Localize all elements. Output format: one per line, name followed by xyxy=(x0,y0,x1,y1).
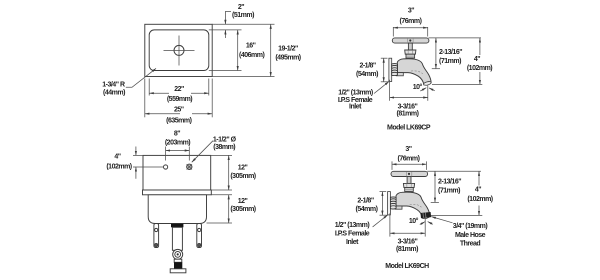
svg-text:Model LK69CP: Model LK69CP xyxy=(387,125,431,132)
16 inch dimension line xyxy=(237,30,239,71)
svg-text:Model LK69CH: Model LK69CH xyxy=(385,263,429,270)
extension bowl bottom to 16 dim xyxy=(209,70,242,72)
svg-text:(76mm): (76mm) xyxy=(400,18,422,25)
2-13/16 dimension CP xyxy=(435,38,437,69)
faucet LK69CP xyxy=(389,38,432,86)
svg-text:(102mm): (102mm) xyxy=(106,164,131,171)
backsplash panel xyxy=(143,155,211,190)
svg-text:(495mm): (495mm) xyxy=(275,55,300,62)
drain foot xyxy=(170,269,186,273)
extension bowl left to 22 dim xyxy=(148,79,150,96)
10 degree arrows CP xyxy=(420,88,426,91)
svg-text:(71mm): (71mm) xyxy=(438,188,460,195)
svg-text:3": 3" xyxy=(408,8,414,15)
19-1/2 dimension line xyxy=(270,24,272,76)
svg-text:2-13/16": 2-13/16" xyxy=(439,49,462,56)
svg-text:Thread: Thread xyxy=(460,241,481,248)
svg-text:10°: 10° xyxy=(409,217,419,225)
handle top extension CP xyxy=(429,37,482,39)
3 inch extension lines CH xyxy=(391,161,393,170)
extension rim right to 25 dim xyxy=(211,79,213,118)
2-1/8 dimension CP xyxy=(383,58,385,82)
lower 12 dimension line xyxy=(228,195,230,223)
svg-text:1/2" (13mm): 1/2" (13mm) xyxy=(338,90,373,97)
leader IPS inlet CP xyxy=(374,82,389,94)
drain pipe xyxy=(172,227,182,250)
4 inch arrows front xyxy=(135,147,137,156)
svg-text:(38mm): (38mm) xyxy=(213,144,235,151)
22 inch dimension line xyxy=(149,92,169,94)
3-3/16 dimension CP xyxy=(390,97,428,99)
3 inch dimension CP xyxy=(393,27,427,29)
left mounting leg xyxy=(154,224,159,248)
drain flange (black) xyxy=(171,224,183,228)
leader hose thread CH xyxy=(431,217,452,223)
svg-text:2-1/8": 2-1/8" xyxy=(357,198,373,205)
2 inch bracket and arrows xyxy=(225,12,231,25)
svg-text:(635mm): (635mm) xyxy=(166,117,191,124)
svg-text:(44mm): (44mm) xyxy=(103,89,125,96)
drain union nut circles xyxy=(173,249,183,259)
extensions 8 inch dim xyxy=(165,147,167,161)
svg-text:22": 22" xyxy=(174,86,184,93)
extension bowl bottom for 12 dim xyxy=(207,222,233,224)
handle top extension CH xyxy=(427,170,481,172)
svg-text:3-3/16": 3-3/16" xyxy=(398,103,418,110)
drain crosshair horizontal xyxy=(164,49,195,51)
3 inch dimension CH xyxy=(392,163,426,165)
svg-text:2-13/16": 2-13/16" xyxy=(438,179,461,186)
outlet extension CH xyxy=(431,214,482,216)
extension panel top left for 4 dim xyxy=(133,154,143,156)
right faucet hole (1-1/2 dia) xyxy=(187,164,192,169)
bowl body xyxy=(148,195,206,224)
svg-text:(406mm): (406mm) xyxy=(239,52,264,59)
svg-text:(71mm): (71mm) xyxy=(439,58,461,65)
right mounting leg xyxy=(197,224,202,248)
svg-text:Male Hose: Male Hose xyxy=(455,232,486,239)
rim band xyxy=(143,190,212,195)
svg-text:Inlet: Inlet xyxy=(349,103,362,110)
2-13/16 bottom tick CP xyxy=(432,68,440,70)
svg-text:(305mm): (305mm) xyxy=(230,173,255,180)
2-1/8 ticks CH xyxy=(380,191,387,193)
svg-text:(102mm): (102mm) xyxy=(467,65,492,72)
sink bowl (inner, rounded) xyxy=(149,30,209,71)
outlet extension CP xyxy=(432,83,482,85)
svg-text:(203mm): (203mm) xyxy=(165,140,190,147)
faucet LK69CH xyxy=(388,171,431,219)
10 degree arrows CH xyxy=(420,222,425,225)
svg-text:3-3/16": 3-3/16" xyxy=(398,238,418,245)
extension panel top right for 12 dim xyxy=(211,154,232,156)
svg-text:2-1/8": 2-1/8" xyxy=(359,63,375,70)
extension bowl top to 16 dim xyxy=(209,29,242,31)
extension bowl right to 22 dim xyxy=(208,79,210,96)
3 inch extension lines CP xyxy=(392,27,394,37)
extension hole centerline for 4 dim xyxy=(133,166,164,168)
svg-text:(76mm): (76mm) xyxy=(398,156,420,163)
svg-text:(54mm): (54mm) xyxy=(356,206,378,213)
svg-text:1/2" (13mm): 1/2" (13mm) xyxy=(335,222,370,229)
25 inch dimension line xyxy=(145,113,180,115)
svg-text:(559mm): (559mm) xyxy=(167,96,192,103)
8 inch dimension line xyxy=(166,150,190,152)
2-13/16 dimension CH xyxy=(434,171,436,202)
left faucet hole xyxy=(164,165,168,169)
svg-text:(305mm): (305mm) xyxy=(230,206,255,213)
2-1/8 ticks CP xyxy=(381,57,388,59)
svg-text:10°: 10° xyxy=(413,83,423,91)
svg-text:12": 12" xyxy=(238,165,248,172)
leader IPS inlet CH xyxy=(373,215,388,227)
svg-text:25": 25" xyxy=(174,107,184,114)
4 inch dimension CP (split) xyxy=(479,38,481,55)
svg-text:4": 4" xyxy=(475,187,481,194)
3-3/16 extension right CH xyxy=(424,218,426,237)
3-3/16 extension left CP xyxy=(389,80,391,101)
leader 1-1/2 dia xyxy=(192,141,213,163)
upper 12 dimension line xyxy=(228,155,230,190)
2-13/16 bottom tick CH xyxy=(431,201,439,203)
svg-text:3/4" (19mm): 3/4" (19mm) xyxy=(453,223,488,230)
2-1/8 dimension CH xyxy=(381,192,383,216)
drain black band xyxy=(174,262,182,269)
drain crosshair vertical xyxy=(178,36,180,66)
svg-text:16": 16" xyxy=(246,43,256,50)
svg-text:I.P.S Female: I.P.S Female xyxy=(335,231,370,238)
svg-text:(81mm): (81mm) xyxy=(397,111,419,118)
sink rim (outer) xyxy=(145,24,212,76)
leader 1-3/4 R xyxy=(126,68,156,87)
svg-text:Inlet: Inlet xyxy=(346,239,359,246)
extension rim top to 19-1/2 dim xyxy=(212,23,274,25)
svg-text:(102mm): (102mm) xyxy=(467,196,492,203)
svg-text:1-1/2" Ø: 1-1/2" Ø xyxy=(213,136,237,143)
svg-text:(81mm): (81mm) xyxy=(396,246,418,253)
svg-text:8": 8" xyxy=(174,131,180,138)
3-3/16 extension left CH xyxy=(389,213,391,236)
svg-text:(51mm): (51mm) xyxy=(232,12,254,19)
svg-text:1-3/4" R: 1-3/4" R xyxy=(102,81,125,88)
drain collar xyxy=(174,259,182,262)
extension band bottom for 12 dim xyxy=(211,194,232,196)
svg-text:4": 4" xyxy=(114,154,120,161)
extension rim bottom to 19-1/2 dim xyxy=(212,76,274,78)
drain circle xyxy=(174,45,184,55)
3-3/16 extension right CP xyxy=(427,86,429,101)
3-3/16 dimension CH xyxy=(390,232,425,234)
svg-text:3": 3" xyxy=(405,146,411,153)
hose nozzle CH xyxy=(420,212,431,218)
svg-text:4": 4" xyxy=(474,56,480,63)
svg-text:(54mm): (54mm) xyxy=(356,71,378,78)
svg-text:19-1/2": 19-1/2" xyxy=(278,46,298,53)
svg-text:12": 12" xyxy=(238,198,248,205)
extension rim left to 25 dim xyxy=(144,79,146,118)
4 inch dimension CH (split) xyxy=(478,171,480,185)
extension band top for 12 dim xyxy=(211,189,232,191)
svg-text:2": 2" xyxy=(238,4,244,11)
